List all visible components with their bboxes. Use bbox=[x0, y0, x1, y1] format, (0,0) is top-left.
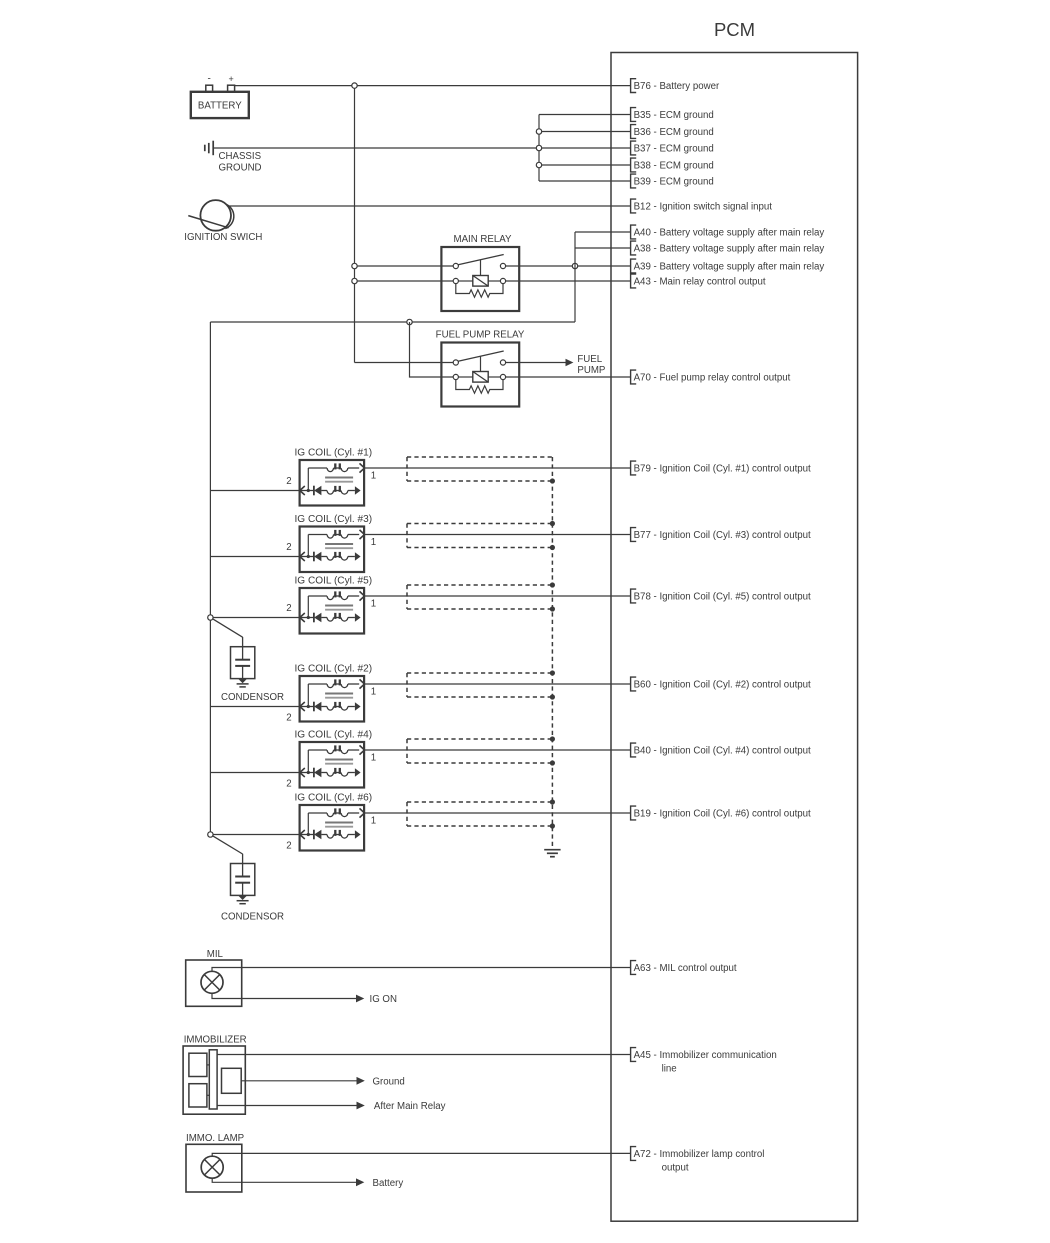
wire relay output horizontal bbox=[210, 321, 575, 323]
pin B76 - Battery power bbox=[631, 79, 720, 93]
node condensor 2 junction bbox=[208, 832, 213, 837]
relay FUEL PUMP RELAY coil contact right bbox=[500, 374, 505, 379]
lamp IMMO. LAMP bulb bbox=[201, 1156, 223, 1178]
node ECM bus B36 junction bbox=[536, 129, 541, 134]
wire ECM ground bus vertical bbox=[538, 115, 540, 182]
node shield junction coil #2 top bbox=[550, 670, 555, 675]
ground shield drain bbox=[544, 850, 560, 857]
pin A63 - MIL control output bbox=[631, 961, 737, 975]
wire MIL to IG ON bbox=[212, 993, 356, 999]
wire to pin B36 bbox=[539, 131, 631, 133]
relay MAIN RELAY coil contact right bbox=[500, 278, 505, 283]
wire ignition coil #5 pin 2 to coil bus bbox=[210, 617, 299, 619]
immobilizer control block bbox=[222, 1068, 242, 1093]
ignition coil #1 core bbox=[325, 478, 353, 482]
wire to pin B37 bbox=[539, 147, 631, 149]
wire MIL to pin A63 bbox=[212, 968, 631, 972]
wire ignition coil #1 pin 1 to PCM bbox=[365, 467, 631, 469]
svg-text:BATTERY: BATTERY bbox=[198, 101, 242, 112]
svg-text:2: 2 bbox=[286, 779, 291, 790]
node shield junction coil #4 bottom bbox=[550, 760, 555, 765]
svg-text:2: 2 bbox=[286, 603, 291, 614]
node shield junction coil #1 bottom bbox=[550, 478, 555, 483]
pin B78 - Ignition Coil (Cyl. #5) control output bbox=[631, 589, 811, 603]
pin B39 - ECM ground bbox=[631, 174, 714, 188]
shield box for ignition coil #1 bbox=[407, 457, 552, 481]
node bus main relay coil junction bbox=[352, 278, 357, 283]
wire IMMO. LAMP to battery arrow bbox=[212, 1178, 356, 1182]
svg-text:IMMOBILIZER: IMMOBILIZER bbox=[184, 1035, 247, 1046]
svg-text:2: 2 bbox=[286, 542, 291, 553]
wire bus to main relay coil bbox=[355, 280, 454, 282]
arrow Battery bbox=[356, 1178, 364, 1186]
ignition coil #4 primary winding bbox=[308, 745, 364, 772]
battery BATTERY bbox=[191, 92, 249, 118]
relay FUEL PUMP RELAY armature link bbox=[480, 356, 482, 372]
lamp MIL box bbox=[186, 960, 242, 1006]
wire ignition coil #4 pin 1 to PCM bbox=[365, 749, 631, 751]
svg-text:-: - bbox=[208, 74, 211, 85]
ignition coil IG COIL (Cyl. #2) box bbox=[300, 676, 365, 722]
relay MAIN RELAY switch contact right bbox=[500, 263, 505, 268]
relay MAIN RELAY switch blade bbox=[458, 255, 504, 265]
wire ignition coil #1 pin 2 to coil bus bbox=[210, 490, 299, 492]
ignition coil #4 secondary winding bbox=[300, 768, 361, 778]
node A39 wire junction bbox=[572, 263, 577, 268]
relay FUEL PUMP RELAY box bbox=[441, 343, 519, 407]
node condensor 1 junction bbox=[208, 615, 213, 620]
shield box for ignition coil #2 bbox=[407, 673, 552, 697]
PCM box bbox=[611, 53, 858, 1222]
ignition switch IGNITION SWICH bbox=[184, 200, 262, 243]
chassis ground label bbox=[219, 151, 262, 174]
svg-text:IG COIL (Cyl. #3): IG COIL (Cyl. #3) bbox=[295, 514, 373, 525]
wire ignition coil #5 pin 1 to PCM bbox=[365, 595, 631, 597]
ignition coil #2 secondary winding bbox=[300, 702, 361, 712]
immobilizer transponder block 1 bbox=[189, 1053, 207, 1076]
node shield junction coil #3 bottom bbox=[550, 545, 555, 550]
svg-text:1: 1 bbox=[371, 816, 376, 827]
label FUEL PUMP bbox=[577, 354, 605, 376]
node shield junction coil #6 bottom bbox=[550, 823, 555, 828]
node shield junction coil #6 top bbox=[550, 799, 555, 804]
svg-text:After Main Relay: After Main Relay bbox=[374, 1101, 446, 1112]
pin B38 - ECM ground bbox=[631, 158, 714, 172]
wire to pin A40 bbox=[575, 231, 631, 233]
svg-text:IG COIL (Cyl. #6): IG COIL (Cyl. #6) bbox=[295, 793, 373, 804]
relay FUEL PUMP RELAY switch contact right bbox=[500, 360, 505, 365]
wire immobilizer to after-main-relay arrow bbox=[217, 1105, 356, 1107]
svg-text:CONDENSOR: CONDENSOR bbox=[221, 692, 284, 703]
svg-text:IG COIL (Cyl. #2): IG COIL (Cyl. #2) bbox=[295, 664, 373, 675]
wire bus to main relay switch bbox=[355, 265, 454, 267]
relay FUEL PUMP RELAY resistor bbox=[456, 380, 503, 394]
wire main relay coil to pin A43 bbox=[506, 280, 631, 282]
svg-text:1: 1 bbox=[371, 599, 376, 610]
pin B35 - ECM ground bbox=[631, 108, 714, 122]
ignition coil #3 core bbox=[325, 544, 353, 548]
svg-text:A45 - Immobilizer communicatio: A45 - Immobilizer communication bbox=[634, 1050, 777, 1061]
ignition coil #1 secondary winding bbox=[300, 486, 361, 496]
svg-text:MIL: MIL bbox=[207, 949, 224, 960]
svg-text:B40 - Ignition Coil (Cyl. #4): B40 - Ignition Coil (Cyl. #4) control ou… bbox=[634, 745, 811, 756]
wire ignition coil feed bus vertical bbox=[209, 322, 211, 835]
svg-text:IG COIL (Cyl. #5): IG COIL (Cyl. #5) bbox=[295, 576, 373, 587]
pin B77 - Ignition Coil (Cyl. #3) control output bbox=[631, 528, 811, 542]
svg-text:B39 - ECM ground: B39 - ECM ground bbox=[634, 176, 714, 187]
capacitor CONDENSOR 1 bbox=[213, 619, 284, 703]
ignition coil #5 core bbox=[325, 606, 353, 610]
svg-text:1: 1 bbox=[371, 537, 376, 548]
node shield junction coil #5 bottom bbox=[550, 606, 555, 611]
pin B19 - Ignition Coil (Cyl. #6) control output bbox=[631, 806, 811, 820]
node shield junction coil #5 top bbox=[550, 582, 555, 587]
pin A39 - Battery voltage supply after main relay bbox=[631, 259, 825, 273]
svg-text:B78 - Ignition Coil (Cyl. #5): B78 - Ignition Coil (Cyl. #5) control ou… bbox=[634, 591, 811, 602]
pin B36 - ECM ground bbox=[631, 125, 714, 139]
chassis ground symbol bbox=[205, 141, 213, 156]
wire ignition coil #2 pin 2 to coil bus bbox=[210, 706, 299, 708]
pin B37 - ECM ground bbox=[631, 141, 714, 155]
svg-text:CHASSIS: CHASSIS bbox=[219, 151, 262, 162]
wire immobilizer internal link 1 bbox=[207, 1064, 209, 1066]
shield box for ignition coil #5 bbox=[407, 585, 552, 609]
relay MAIN RELAY coil contact left bbox=[453, 278, 458, 283]
ignition coil IG COIL (Cyl. #4) box bbox=[300, 742, 365, 788]
relay MAIN RELAY coil bbox=[458, 276, 500, 287]
immobilizer antenna bar bbox=[209, 1050, 217, 1109]
wire main relay switch to pin A39 bbox=[506, 265, 631, 267]
wire immobilizer to ground arrow bbox=[241, 1080, 356, 1082]
wire to pin B39 bbox=[539, 180, 631, 182]
ignition coil #3 primary winding bbox=[308, 530, 364, 557]
svg-text:IMMO. LAMP: IMMO. LAMP bbox=[186, 1133, 244, 1144]
arrow Ground bbox=[357, 1077, 365, 1085]
wire ignition switch to pin B12 bbox=[228, 205, 631, 207]
ignition coil IG COIL (Cyl. #1) box bbox=[300, 460, 365, 506]
relay MAIN RELAY armature link bbox=[480, 260, 482, 276]
svg-text:PCM: PCM bbox=[714, 19, 755, 40]
node relay output junction bbox=[407, 319, 412, 324]
ignition coil IG COIL (Cyl. #6) box bbox=[300, 805, 365, 851]
wire battery to pin B76 bbox=[235, 85, 631, 87]
node shield junction coil #4 top bbox=[550, 736, 555, 741]
arrow After Main Relay bbox=[357, 1102, 365, 1110]
ignition coil #1 primary winding bbox=[308, 463, 364, 490]
svg-text:A39 - Battery voltage supply a: A39 - Battery voltage supply after main … bbox=[634, 261, 825, 272]
relay FUEL PUMP RELAY coil contact left bbox=[453, 374, 458, 379]
svg-text:CONDENSOR: CONDENSOR bbox=[221, 912, 284, 923]
svg-text:output: output bbox=[662, 1162, 689, 1173]
pin B40 - Ignition Coil (Cyl. #4) control output bbox=[631, 743, 811, 757]
ignition coil IG COIL (Cyl. #3) box bbox=[300, 527, 365, 573]
ignition coil #5 primary winding bbox=[308, 591, 364, 617]
wire ignition coil #6 pin 2 to coil bus bbox=[210, 834, 299, 836]
wire fuel pump relay switch to fuel pump arrow bbox=[506, 362, 566, 364]
ignition coil #2 primary winding bbox=[308, 679, 364, 706]
svg-text:B37 - ECM ground: B37 - ECM ground bbox=[634, 143, 714, 154]
relay FUEL PUMP RELAY switch contact left bbox=[453, 360, 458, 365]
svg-text:B76 - Battery power: B76 - Battery power bbox=[634, 81, 720, 92]
ignition coil #6 secondary winding bbox=[300, 830, 361, 840]
arrow IG ON bbox=[356, 995, 364, 1003]
ignition coil #6 primary winding bbox=[308, 808, 364, 834]
svg-text:B77 - Ignition Coil (Cyl. #3): B77 - Ignition Coil (Cyl. #3) control ou… bbox=[634, 530, 811, 541]
svg-text:IG COIL (Cyl. #4): IG COIL (Cyl. #4) bbox=[295, 730, 373, 741]
svg-text:1: 1 bbox=[371, 687, 376, 698]
battery terminal + bbox=[228, 74, 235, 92]
wire shield drain dashed vertical bbox=[551, 457, 553, 848]
capacitor CONDENSOR 2 bbox=[213, 836, 284, 922]
pin A38 - Battery voltage supply after main relay bbox=[631, 241, 825, 255]
svg-text:B36 - ECM ground: B36 - ECM ground bbox=[634, 127, 714, 138]
pin A72 - Immobilizer lamp control bbox=[631, 1147, 765, 1174]
pin B60 - Ignition Coil (Cyl. #2) control output bbox=[631, 677, 811, 691]
svg-text:A72 - Immobilizer lamp control: A72 - Immobilizer lamp control bbox=[634, 1149, 765, 1160]
svg-text:MAIN RELAY: MAIN RELAY bbox=[454, 234, 512, 245]
svg-text:A70 - Fuel pump relay control: A70 - Fuel pump relay control output bbox=[634, 372, 791, 383]
wire ignition coil #3 pin 1 to PCM bbox=[365, 534, 631, 536]
wire bus to fuel pump relay switch bbox=[355, 362, 454, 364]
relay MAIN RELAY box bbox=[441, 247, 519, 311]
svg-text:IG ON: IG ON bbox=[370, 994, 397, 1005]
pin B12 - Ignition switch signal input bbox=[631, 199, 773, 213]
arrow to fuel pump bbox=[566, 359, 574, 367]
wire immobilizer internal link 2 bbox=[207, 1094, 209, 1096]
svg-text:+: + bbox=[228, 74, 233, 84]
svg-text:A38 - Battery voltage supply a: A38 - Battery voltage supply after main … bbox=[634, 243, 825, 254]
relay FUEL PUMP RELAY switch blade bbox=[458, 351, 504, 361]
node shield junction coil #2 bottom bbox=[550, 694, 555, 699]
wire fuel pump relay coil to pin A70 bbox=[506, 376, 631, 378]
svg-text:1: 1 bbox=[371, 471, 376, 482]
ignition coil #4 core bbox=[325, 760, 353, 764]
svg-text:A63 - MIL control output: A63 - MIL control output bbox=[634, 963, 737, 974]
pin A45 - Immobilizer communication bbox=[631, 1048, 777, 1075]
battery terminal - bbox=[206, 74, 213, 92]
ignition coil #3 secondary winding bbox=[300, 552, 361, 562]
svg-text:B79 - Ignition Coil (Cyl. #1): B79 - Ignition Coil (Cyl. #1) control ou… bbox=[634, 463, 811, 474]
svg-text:Ground: Ground bbox=[373, 1076, 405, 1087]
svg-text:A40 - Battery voltage supply a: A40 - Battery voltage supply after main … bbox=[634, 227, 825, 238]
svg-text:B19 - Ignition Coil (Cyl. #6): B19 - Ignition Coil (Cyl. #6) control ou… bbox=[634, 808, 811, 819]
svg-text:B60 - Ignition Coil (Cyl. #2): B60 - Ignition Coil (Cyl. #2) control ou… bbox=[634, 679, 811, 690]
ignition coil #5 secondary winding bbox=[300, 613, 361, 623]
lamp MIL bulb bbox=[201, 971, 223, 993]
node battery wire junction bbox=[352, 83, 357, 88]
ignition coil #2 core bbox=[325, 694, 353, 698]
immobilizer IMMOBILIZER box bbox=[183, 1046, 245, 1114]
wire ignition coil #2 pin 1 to PCM bbox=[365, 683, 631, 685]
svg-text:B38 - ECM ground: B38 - ECM ground bbox=[634, 160, 714, 171]
wire junction down to fuel pump relay coil bbox=[410, 322, 454, 377]
wire ignition coil #6 pin 1 to PCM bbox=[365, 812, 631, 814]
wire ignition coil #3 pin 2 to coil bus bbox=[210, 556, 299, 558]
svg-text:Battery: Battery bbox=[373, 1178, 404, 1189]
node shield junction coil #3 top bbox=[550, 521, 555, 526]
wire main power bus vertical bbox=[354, 88, 356, 362]
wire chassis ground to ECM ground bus bbox=[213, 147, 539, 149]
svg-text:B35 - ECM ground: B35 - ECM ground bbox=[634, 110, 714, 121]
wire ignition coil #4 pin 2 to coil bus bbox=[210, 772, 299, 774]
svg-text:IG COIL (Cyl. #1): IG COIL (Cyl. #1) bbox=[295, 448, 373, 459]
node ECM bus B37 junction bbox=[536, 145, 541, 150]
node bus main relay switch junction bbox=[352, 263, 357, 268]
ignition coil IG COIL (Cyl. #5) box bbox=[300, 588, 365, 634]
svg-text:IGNITION SWICH: IGNITION SWICH bbox=[184, 232, 262, 243]
lamp IMMO. LAMP box bbox=[186, 1144, 242, 1192]
wire IMMO. LAMP to pin A72 bbox=[212, 1153, 630, 1156]
pin A70 - Fuel pump relay control output bbox=[631, 370, 791, 384]
svg-text:FUEL: FUEL bbox=[577, 354, 602, 365]
immobilizer transponder block 2 bbox=[189, 1084, 207, 1107]
pin A40 - Battery voltage supply after main relay bbox=[631, 225, 825, 239]
relay MAIN RELAY resistor bbox=[456, 284, 503, 298]
pin A43 - Main relay control output bbox=[631, 274, 766, 288]
relay FUEL PUMP RELAY coil bbox=[458, 372, 500, 383]
wire to pin A38 bbox=[575, 247, 631, 249]
relay MAIN RELAY switch contact left bbox=[453, 263, 458, 268]
shield box for ignition coil #6 bbox=[407, 802, 552, 826]
svg-text:line: line bbox=[662, 1063, 677, 1074]
wire battery-voltage bus vertical bbox=[574, 232, 576, 322]
pin B79 - Ignition Coil (Cyl. #1) control output bbox=[631, 461, 811, 475]
wire to pin B38 bbox=[539, 164, 631, 166]
svg-text:GROUND: GROUND bbox=[219, 163, 262, 174]
svg-text:2: 2 bbox=[286, 841, 291, 852]
svg-text:B12 - Ignition switch signal i: B12 - Ignition switch signal input bbox=[634, 201, 773, 212]
ignition coil #6 core bbox=[325, 823, 353, 827]
shield box for ignition coil #3 bbox=[407, 524, 552, 548]
svg-text:2: 2 bbox=[286, 713, 291, 724]
svg-text:PUMP: PUMP bbox=[577, 365, 605, 376]
svg-text:A43 - Main relay control outpu: A43 - Main relay control output bbox=[634, 276, 766, 287]
svg-text:2: 2 bbox=[286, 476, 291, 487]
node ECM bus B38 junction bbox=[536, 162, 541, 167]
shield box for ignition coil #4 bbox=[407, 739, 552, 763]
wire immobilizer to pin A45 bbox=[217, 1054, 630, 1056]
wire to pin B35 bbox=[539, 114, 631, 116]
svg-text:1: 1 bbox=[371, 753, 376, 764]
svg-text:FUEL PUMP RELAY: FUEL PUMP RELAY bbox=[436, 329, 525, 340]
